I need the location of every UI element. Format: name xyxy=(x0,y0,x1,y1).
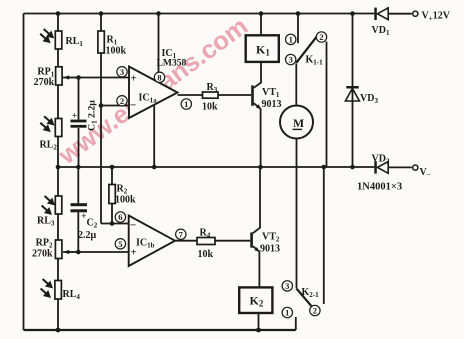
svg-text:R3: R3 xyxy=(207,82,218,94)
svg-text:10k: 10k xyxy=(202,102,218,113)
svg-text:9013: 9013 xyxy=(260,244,280,255)
svg-text:−: − xyxy=(130,100,136,112)
svg-text:R4: R4 xyxy=(200,228,211,240)
svg-text:VT1: VT1 xyxy=(262,87,280,99)
svg-text:+: + xyxy=(81,211,86,221)
svg-text:270k: 270k xyxy=(32,249,53,260)
svg-text:9013: 9013 xyxy=(262,99,282,110)
svg-text:3: 3 xyxy=(289,55,293,65)
svg-text:+: + xyxy=(131,73,137,85)
svg-text:8: 8 xyxy=(157,72,161,82)
svg-text:C1 2.2μ: C1 2.2μ xyxy=(87,100,99,131)
svg-text:2: 2 xyxy=(319,32,323,42)
svg-text:RL2: RL2 xyxy=(40,140,58,152)
svg-text:6: 6 xyxy=(118,212,122,222)
svg-text:+: + xyxy=(72,110,77,120)
svg-text:3: 3 xyxy=(285,281,289,291)
svg-text:1: 1 xyxy=(285,308,289,318)
svg-text:RL4: RL4 xyxy=(63,289,81,301)
svg-text:VD2: VD2 xyxy=(372,154,390,166)
svg-text:V−: V− xyxy=(420,167,431,179)
svg-text:LM358: LM358 xyxy=(157,58,187,69)
svg-text:V+12V: V+12V xyxy=(422,11,451,23)
svg-text:10k: 10k xyxy=(198,249,214,260)
svg-text:1: 1 xyxy=(184,99,188,109)
svg-text:2.2μ: 2.2μ xyxy=(78,230,97,241)
svg-text:100k: 100k xyxy=(115,195,136,206)
svg-text:3: 3 xyxy=(120,67,124,77)
svg-text:VT2: VT2 xyxy=(262,232,280,244)
svg-text:5: 5 xyxy=(118,239,122,249)
svg-text:VD3: VD3 xyxy=(360,93,378,105)
svg-text:C2: C2 xyxy=(87,218,98,230)
svg-text:270k: 270k xyxy=(34,77,55,88)
svg-text:100k: 100k xyxy=(106,46,127,57)
svg-text:1N4001×3: 1N4001×3 xyxy=(357,182,402,193)
svg-text:VD1: VD1 xyxy=(372,25,390,37)
svg-text:7: 7 xyxy=(179,229,184,239)
svg-text:K2-1: K2-1 xyxy=(302,287,320,299)
svg-text:1: 1 xyxy=(289,34,293,44)
svg-text:RL3: RL3 xyxy=(37,216,55,228)
svg-text:2: 2 xyxy=(313,306,317,316)
svg-text:K1-1: K1-1 xyxy=(306,55,324,67)
svg-text:−: − xyxy=(130,220,136,232)
svg-text:2: 2 xyxy=(120,96,124,106)
svg-text:RL1: RL1 xyxy=(66,36,84,48)
svg-text:M: M xyxy=(293,116,304,130)
